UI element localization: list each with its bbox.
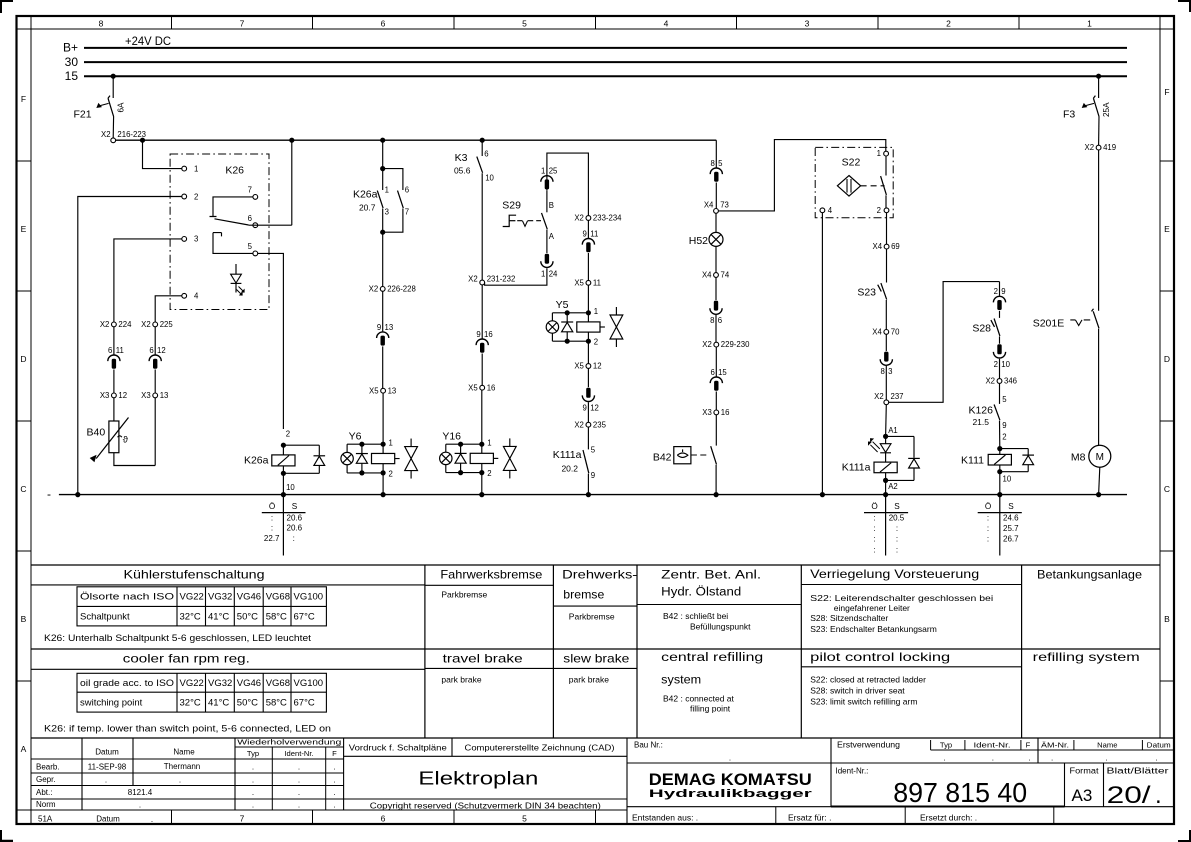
svg-text:VG32: VG32 [208, 678, 232, 689]
svg-text:B: B [21, 614, 27, 624]
svg-text:Y5: Y5 [556, 299, 569, 311]
oil grade table german [77, 587, 326, 626]
svg-text:Datum: Datum [96, 814, 120, 823]
wire Y16 to bus [481, 473, 483, 495]
svg-text:Typ: Typ [940, 741, 952, 750]
wire X5 12 down [587, 368, 589, 387]
svg-text:.: . [298, 801, 300, 810]
svg-text:231-232: 231-232 [487, 275, 516, 284]
svg-text:Befüllungspunkt: Befüllungspunkt [690, 621, 751, 631]
svg-text:10: 10 [1003, 475, 1012, 484]
seat switch S28 [972, 319, 1000, 337]
relay unit K26 enclosure [170, 154, 269, 310]
svg-text:12: 12 [593, 362, 602, 371]
oil grade table english [77, 673, 326, 712]
wire X5 16 to Y16 [481, 390, 483, 444]
svg-text:A: A [549, 232, 555, 241]
legend section grid [31, 565, 1160, 738]
svg-text:Entstanden aus: .: Entstanden aus: . [632, 812, 698, 822]
svg-text:10: 10 [286, 483, 295, 492]
svg-text:1: 1 [487, 438, 491, 447]
svg-text:229-230: 229-230 [721, 340, 750, 349]
svg-text:25: 25 [549, 167, 558, 176]
svg-text:70: 70 [891, 328, 900, 337]
svg-text:.: . [298, 788, 300, 797]
svg-text:Bearb.: Bearb. [36, 762, 60, 771]
svg-text:pilot control locking: pilot control locking [810, 650, 950, 664]
svg-text:21.5: 21.5 [972, 417, 989, 427]
svg-text:X2: X2 [574, 420, 584, 429]
svg-text:.: . [179, 775, 181, 784]
svg-text:1: 1 [194, 164, 198, 173]
wire X5 13 to Y6 [382, 393, 384, 444]
svg-text:224: 224 [118, 320, 132, 329]
connector 2|9 [993, 287, 1005, 310]
svg-text:20.6: 20.6 [287, 524, 303, 533]
svg-text::: : [987, 513, 989, 522]
svg-text:2: 2 [994, 360, 998, 369]
wire contact to X2 226-228 [382, 209, 384, 287]
svg-text:1: 1 [385, 185, 389, 194]
wire net 216-223 horizontal [116, 139, 717, 141]
svg-text:-: - [47, 487, 51, 501]
svg-text:5: 5 [522, 814, 527, 824]
node 15/F3 [1096, 74, 1101, 79]
svg-text:Drehwerks-: Drehwerks- [562, 567, 637, 581]
bus wire 30 [84, 61, 1127, 63]
wire 1|25 to S29 B [546, 190, 548, 212]
svg-text:Hydraulikbagger: Hydraulikbagger [649, 788, 813, 800]
svg-text:E: E [21, 224, 27, 234]
svg-text:park brake: park brake [569, 674, 609, 684]
svg-text:B42: B42 [653, 451, 672, 463]
svg-text:2: 2 [594, 338, 598, 347]
svg-text:X2: X2 [100, 320, 110, 329]
svg-text:X4: X4 [873, 242, 883, 251]
terminal X3 16 [702, 408, 729, 417]
svg-text:16: 16 [487, 383, 496, 392]
svg-text:S28: switch in driver seat: S28: switch in driver seat [810, 685, 905, 695]
svg-text:237: 237 [891, 392, 904, 401]
wire K111a contact to bus [587, 474, 589, 495]
wire 9|16 to X5 16 [481, 354, 483, 386]
wire K126 to K111 coil [999, 421, 1001, 449]
svg-text:6: 6 [484, 149, 488, 158]
K26 internal LED [231, 264, 245, 295]
svg-text:S201E: S201E [1033, 317, 1065, 329]
svg-text:3: 3 [194, 235, 198, 244]
svg-text:Blatt/Blätter: Blatt/Blätter [1107, 766, 1169, 775]
connector 6|12 [149, 346, 166, 369]
svg-text:X2: X2 [141, 320, 151, 329]
svg-text:D: D [1164, 354, 1170, 364]
limit switch S23 [857, 283, 886, 300]
terminal X2 235 [574, 420, 606, 429]
svg-text:2: 2 [389, 469, 393, 478]
svg-text:K26: K26 [225, 165, 244, 177]
svg-text:X2: X2 [702, 340, 712, 349]
svg-text:233-234: 233-234 [593, 214, 622, 223]
wire 8|3 to X2 237 [885, 366, 887, 400]
wire F3 to X2 419 [1098, 117, 1100, 146]
svg-text:24.6: 24.6 [1003, 513, 1019, 522]
svg-text:5: 5 [591, 446, 596, 455]
svg-text:4: 4 [664, 19, 669, 29]
svg-text:X4: X4 [704, 201, 714, 210]
wire S29 A to 1|24 [546, 230, 548, 253]
connector 8|6 [710, 301, 722, 326]
wire S22 pin4 to bus [821, 213, 823, 495]
K26 pin 2 [182, 192, 199, 201]
svg-text:S28: S28 [972, 323, 991, 335]
svg-text:.: . [252, 801, 254, 810]
wire net from bus to K26 pin6 [289, 138, 294, 226]
K26 pin 1 [182, 164, 199, 173]
svg-text:Elektroplan: Elektroplan [418, 769, 538, 789]
svg-text:F3: F3 [1063, 109, 1075, 121]
svg-text:X3: X3 [141, 391, 151, 400]
svg-text:15: 15 [718, 368, 727, 377]
svg-text:.: . [252, 775, 254, 784]
svg-text:Ident-Nr.: Ident-Nr. [284, 749, 313, 758]
svg-text:VG32: VG32 [208, 592, 232, 603]
column numbers bottom [240, 814, 528, 824]
col4 Zentr Bet Anl [637, 569, 801, 631]
connector 9|13 [377, 323, 394, 346]
svg-text:15: 15 [65, 69, 79, 83]
svg-text:VG68: VG68 [266, 592, 290, 603]
terminal X2 224 [100, 320, 132, 329]
column ticks bottom [313, 810, 596, 824]
svg-text:1: 1 [594, 307, 598, 316]
junction K26a coil bus [281, 492, 286, 497]
svg-text:9: 9 [583, 403, 587, 412]
wire X2 231-232 down [481, 285, 483, 339]
svg-text:41°C: 41°C [208, 698, 229, 709]
connector 9|12 [582, 388, 599, 413]
svg-text:.: . [333, 775, 335, 784]
col5 Verriegelung Vorsteuerung [801, 567, 1021, 634]
svg-text:S: S [1008, 502, 1014, 511]
solenoid valve Y6 lamp [341, 444, 383, 473]
wire X2 235 to K111a contact [587, 427, 589, 449]
svg-text:1: 1 [541, 167, 545, 176]
svg-text:51A: 51A [38, 814, 53, 823]
svg-text:26.7: 26.7 [1003, 535, 1019, 544]
svg-text:B+: B+ [63, 41, 78, 55]
wire bus elbow to 8|5 [715, 140, 717, 167]
svg-text::: : [271, 513, 273, 522]
temperature sensor B40 [87, 418, 129, 462]
svg-text:Format: Format [1070, 766, 1100, 775]
connector 6|11 [108, 346, 124, 369]
fuse switch F3 25A [1063, 96, 1111, 121]
svg-text:5: 5 [1002, 395, 1007, 404]
svg-text:switching point: switching point [80, 698, 143, 709]
junction B42 bus [714, 492, 719, 497]
svg-text:Datum: Datum [95, 748, 119, 757]
junction Y6 bus [381, 492, 386, 497]
col4 central refilling system [661, 652, 763, 714]
wire 9|11 to X5 11 [587, 253, 589, 280]
wire X3 13 down [154, 398, 156, 466]
svg-text:VG68: VG68 [266, 678, 290, 689]
wire X2 229-230 down [715, 347, 717, 377]
svg-text:50°C: 50°C [237, 612, 258, 623]
svg-text:2: 2 [194, 192, 198, 201]
wire X4 74 down [715, 277, 717, 300]
svg-text:X5: X5 [574, 278, 584, 287]
svg-text:.: . [151, 815, 153, 824]
svg-text:Betankungsanlage: Betankungsanlage [1037, 567, 1142, 581]
wire X4 70 down [885, 334, 887, 351]
svg-text:.: . [1028, 754, 1030, 763]
svg-text:2: 2 [946, 19, 951, 29]
svg-text:897 815 40: 897 815 40 [893, 777, 1027, 808]
svg-text::: : [896, 524, 898, 533]
svg-text:K26: if temp. lower than switc: K26: if temp. lower than switch point, 5… [44, 724, 331, 734]
svg-text:20/: 20/ [1107, 782, 1151, 809]
svg-text:10: 10 [1001, 360, 1010, 369]
wire S28 to 2|10 [999, 336, 1001, 343]
svg-text:5: 5 [522, 19, 527, 29]
contact map table K111 [978, 495, 1022, 556]
node K26a contact bottom [380, 230, 385, 235]
row letters [20, 87, 1170, 754]
contact K111a 5-9 [553, 446, 596, 480]
junction Y5 branch bus [586, 492, 591, 497]
bottom strip left cells [38, 810, 172, 824]
svg-text:3: 3 [888, 367, 892, 376]
wire S22 pin2 to X4 69 [886, 213, 888, 245]
terminal X2 346 [985, 377, 1017, 386]
wire X2 346 to K126 [999, 383, 1001, 404]
terminal X2 216-223 [101, 130, 146, 143]
svg-text:58°C: 58°C [266, 698, 287, 709]
svg-text:cooler fan rpm reg.: cooler fan rpm reg. [123, 652, 250, 666]
wire X4 73 to S22 feed [718, 140, 885, 211]
svg-text:Ersetzt durch: .: Ersetzt durch: . [920, 812, 977, 822]
svg-text:X3: X3 [702, 408, 712, 417]
S22 sensor symbol [837, 176, 884, 197]
K26 internal changeover contact [210, 197, 253, 254]
svg-text:419: 419 [1103, 143, 1116, 152]
svg-text:travel brake: travel brake [443, 652, 523, 666]
svg-text:central refilling: central refilling [661, 652, 763, 664]
svg-text:8121.4: 8121.4 [128, 788, 153, 797]
svg-text:6: 6 [108, 346, 112, 355]
svg-text:A1: A1 [888, 426, 898, 435]
motor M8 [1071, 445, 1111, 467]
svg-text:S29: S29 [502, 200, 521, 212]
svg-text:S22: closed at retracted ladde: S22: closed at retracted ladder [810, 674, 926, 684]
svg-text:.: . [105, 775, 107, 784]
svg-text:11-SEP-98: 11-SEP-98 [88, 762, 127, 771]
terminal X2 225 [141, 320, 173, 329]
wire X5 11 to Y5 [587, 285, 589, 313]
svg-text:.: . [943, 754, 945, 763]
level switch B42 [653, 446, 717, 464]
wire X2 231-232 to S29 [485, 268, 547, 285]
wire 2|10 to X2 346 [999, 359, 1001, 379]
K26 pin 4 [182, 292, 199, 301]
svg-text:refilling system: refilling system [1033, 650, 1140, 664]
svg-text:F: F [332, 749, 337, 758]
svg-text:.: . [1155, 754, 1157, 763]
S22 pin 1 [877, 149, 889, 158]
terminal X5 16 [468, 383, 495, 392]
S22 pin 4 [820, 206, 833, 215]
svg-text:11: 11 [590, 229, 598, 238]
svg-text:8: 8 [710, 159, 714, 168]
wire X2 419 to S201E [1098, 150, 1100, 311]
svg-text:VG100: VG100 [294, 592, 324, 603]
svg-text:.: . [729, 754, 731, 763]
contact map table K111a [864, 495, 908, 556]
terminal X4 73 [704, 201, 729, 214]
svg-text:Erstverwendung: Erstverwendung [837, 741, 900, 750]
svg-text:X2: X2 [985, 377, 995, 386]
svg-text:.: . [252, 762, 254, 771]
svg-text:346: 346 [1004, 377, 1017, 386]
terminal X2 229-230 [702, 340, 750, 349]
junction bus/K3 [480, 138, 485, 143]
svg-text:B: B [1164, 614, 1170, 624]
svg-text:.: . [333, 788, 335, 797]
column ticks top [172, 16, 1020, 29]
svg-text:1: 1 [877, 149, 881, 158]
svg-text:X2: X2 [874, 392, 884, 401]
door switch S201E [1033, 309, 1099, 330]
svg-text:+24V DC: +24V DC [125, 36, 171, 48]
K26 pin 6 [248, 214, 258, 228]
connector 8|5 [710, 159, 723, 182]
svg-text:Ölsorte nach ISO: Ölsorte nach ISO [80, 592, 174, 603]
terminal X2 231-232 [468, 275, 515, 285]
svg-text:11: 11 [593, 278, 601, 287]
terminal X4 74 [702, 271, 730, 280]
relay coil K26a with diode [244, 443, 325, 492]
svg-text:B42 : schließt bei: B42 : schließt bei [663, 611, 728, 621]
svg-text:oil grade acc. to ISO: oil grade acc. to ISO [80, 678, 174, 689]
svg-text:20.2: 20.2 [561, 464, 578, 474]
connector 9|11 [582, 229, 598, 252]
valve symbol Y5 [610, 307, 623, 347]
svg-text:235: 235 [593, 420, 607, 429]
wire B42 contact to bus [715, 465, 717, 495]
terminal X2 226-228 [369, 285, 416, 294]
svg-text:K126: K126 [968, 404, 993, 416]
svg-text:K111a: K111a [553, 449, 582, 461]
wire top to 2|9 [999, 282, 1001, 296]
wire 15 to F21 [112, 76, 114, 98]
suppressor diode Y5 [561, 310, 573, 344]
wire to K3 contact [481, 140, 483, 156]
solenoid valve Y16 lamp [440, 444, 482, 472]
terminal X2 233-234 [574, 214, 622, 223]
svg-text:S23: S23 [857, 287, 876, 299]
wire K111 to bus [999, 472, 1001, 495]
connector 1|25 [541, 167, 558, 190]
svg-text:K111: K111 [961, 454, 984, 466]
svg-text:24: 24 [549, 269, 558, 278]
svg-text:Ö: Ö [871, 501, 877, 511]
connector 8|3 [880, 352, 892, 377]
svg-text:X2: X2 [101, 130, 111, 139]
svg-text:system: system [661, 675, 701, 687]
wire F21 to X2 [112, 117, 114, 139]
valve symbol Y6 [405, 439, 418, 479]
svg-text:DEMAG KOMAŦSU: DEMAG KOMAŦSU [649, 771, 812, 789]
svg-text:F: F [1026, 741, 1031, 750]
svg-text:Fahrwerksbremse: Fahrwerksbremse [440, 567, 542, 581]
svg-text:K26: Unterhalb Schaltpunkt 5-6: K26: Unterhalb Schaltpunkt 5-6 geschloss… [44, 633, 312, 643]
wire X3 16 to B42 contact [715, 415, 717, 446]
svg-text::: : [873, 535, 875, 544]
wire 9|12 to X2 235 [587, 402, 589, 422]
svg-text:D: D [20, 354, 26, 364]
svg-text:1: 1 [541, 269, 545, 278]
svg-text:73: 73 [720, 201, 729, 210]
svg-text:67°C: 67°C [294, 612, 315, 623]
junction M8 bus [1096, 492, 1101, 497]
svg-text:B: B [549, 201, 554, 210]
svg-text:X4: X4 [702, 271, 712, 280]
minus bus wire [59, 494, 1127, 496]
svg-text:K26a: K26a [244, 454, 269, 466]
svg-text:3: 3 [805, 19, 810, 29]
svg-text:7: 7 [405, 208, 409, 217]
wire 9|13 to X5 13 [382, 346, 384, 388]
relay coil K111a with LED and diode [842, 434, 920, 483]
svg-text:.: . [333, 801, 335, 810]
svg-text:B42 : connected at: B42 : connected at [663, 693, 735, 703]
svg-text:1: 1 [389, 438, 393, 447]
wire K26a coil to bus [282, 473, 284, 494]
svg-text:Abt.:: Abt.: [36, 788, 52, 797]
terminal X3 13 [141, 391, 168, 400]
svg-text:6: 6 [381, 814, 386, 824]
svg-text:6: 6 [381, 19, 386, 29]
svg-text:.: . [139, 801, 141, 810]
svg-text:8: 8 [880, 367, 884, 376]
wire 6|11 to X3 12 [113, 370, 115, 394]
svg-text:9: 9 [377, 323, 381, 332]
svg-text:F21: F21 [74, 109, 92, 121]
wire K111a to bus [885, 480, 887, 494]
wire S23 to X4 70 [885, 300, 887, 330]
suppressor diode Y16 [455, 442, 467, 476]
wire X2 226-228 down [382, 291, 384, 331]
svg-text:Typ: Typ [247, 749, 259, 758]
title block frame lines [31, 738, 1174, 824]
wire 15 to F3 [1098, 76, 1100, 98]
svg-text:30: 30 [65, 55, 79, 69]
contact K26a 6-7 [398, 185, 410, 216]
svg-text:6: 6 [248, 214, 252, 223]
coil Y16 [442, 431, 498, 478]
svg-text:X2: X2 [369, 285, 379, 294]
svg-text:K111a: K111a [842, 461, 871, 473]
wire K3 to X2 231-232 [481, 173, 483, 280]
svg-text::: : [987, 524, 989, 533]
svg-text:Wiederholverwendung: Wiederholverwendung [237, 738, 341, 747]
svg-text::: : [271, 524, 273, 533]
svg-text:50°C: 50°C [237, 698, 258, 709]
svg-text:S23: limit switch refilling ar: S23: limit switch refilling arm [810, 697, 917, 707]
terminal X4 70 [872, 328, 900, 337]
svg-text:S28: Sitzendschalter: S28: Sitzendschalter [810, 613, 888, 623]
